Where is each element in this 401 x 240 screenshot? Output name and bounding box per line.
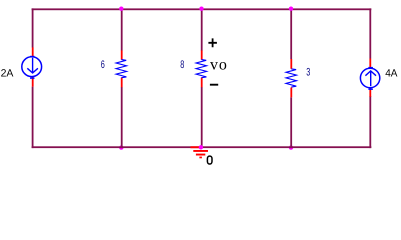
junction dot top branch2 xyxy=(199,7,203,11)
minus sign xyxy=(210,84,218,86)
svg-text:2A: 2A xyxy=(1,68,14,80)
wire left upper xyxy=(32,8,34,47)
current source I1 arrowhead (down) xyxy=(27,68,38,73)
junction dot bottom branch2 (ground node) xyxy=(199,145,203,149)
resistor R3 pin bottom xyxy=(290,88,292,98)
svg-text:8: 8 xyxy=(180,59,184,71)
wire branch1 upper xyxy=(121,8,123,50)
current source I1 top tick xyxy=(30,56,35,57)
current source I2 arrowhead (up) xyxy=(365,71,376,76)
current source I2 body xyxy=(360,68,379,87)
ground bar 3 xyxy=(196,154,205,156)
wire bottom xyxy=(32,146,372,148)
wire branch3 lower xyxy=(290,97,292,148)
wire branch3 upper xyxy=(290,8,292,59)
ground label 0 xyxy=(207,156,212,164)
plus sign xyxy=(208,38,217,47)
current source I1 arrow shaft xyxy=(32,58,34,73)
wire branch2 upper xyxy=(201,8,203,50)
current source I2 pin bottom xyxy=(369,88,371,97)
current source I2 top tick xyxy=(368,67,373,68)
resistor R2 zigzag xyxy=(196,60,207,78)
ground top bar xyxy=(191,146,201,148)
junction dot bottom branch1 (under wires) xyxy=(119,145,123,149)
resistor R2 pin bottom xyxy=(201,78,203,88)
wire right upper xyxy=(369,8,371,58)
wire right lower xyxy=(369,96,371,148)
ground bar 4 xyxy=(199,157,202,159)
resistor R1 zigzag xyxy=(116,60,127,78)
current source I2 arrow shaft xyxy=(370,71,372,86)
resistor R1 pin bottom xyxy=(121,78,123,88)
current source I1 bottom tick xyxy=(30,77,35,78)
junction dot bottom branch3 (under wires) xyxy=(289,145,293,149)
junction dot top branch1 xyxy=(119,7,123,11)
current source I1 pin bottom xyxy=(32,76,34,86)
resistor R3 zigzag xyxy=(286,69,297,87)
wire left lower xyxy=(32,87,34,149)
svg-text:4A: 4A xyxy=(385,68,397,80)
resistor R2 pin top xyxy=(201,50,203,59)
wire top xyxy=(32,8,372,10)
current source I2 pin top xyxy=(369,59,371,69)
current source I1 body xyxy=(22,57,42,77)
resistor R3 pin top xyxy=(290,59,292,69)
current source I1 pin top xyxy=(32,47,34,57)
svg-text:6: 6 xyxy=(101,59,105,71)
svg-text:vo: vo xyxy=(210,57,228,74)
wire branch2 lower xyxy=(201,87,203,148)
ground bar 2 xyxy=(193,150,208,152)
svg-text:3: 3 xyxy=(306,66,310,78)
current source I2 bottom tick xyxy=(368,89,373,90)
wire branch1 lower xyxy=(121,87,123,148)
junction dot top branch3 xyxy=(289,7,293,11)
resistor R1 pin top xyxy=(121,50,123,59)
